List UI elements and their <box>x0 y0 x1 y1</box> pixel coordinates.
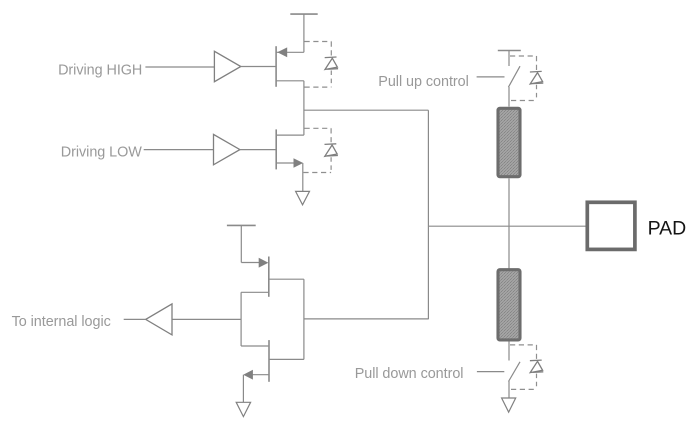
ESD diode D2 dashed anode lead <box>330 157 332 172</box>
transistor Q2 (NMOS, driving LOW) : gate/channel bar <box>275 129 277 169</box>
buffer U1 (Driving HIGH) <box>214 51 240 81</box>
wire: Q2 source down to ground <box>302 163 304 191</box>
switch S2 blade (pull down) <box>509 362 521 382</box>
ESD diode D2 bottom wire <box>303 172 331 174</box>
ESD diode D1 bottom wire <box>305 86 332 88</box>
resistor R1 (pull-up) <box>498 108 520 176</box>
wire: Driving LOW label to buffer U2 input <box>144 149 214 151</box>
wire: buffer U1 output to Q1 gate <box>241 66 276 68</box>
transistor Q4 (NMOS, input buffer) : channel bar <box>268 340 270 382</box>
resistor R2 (pull-down) <box>498 270 520 340</box>
svg-text:To internal logic: To internal logic <box>12 314 111 330</box>
ESD diode D1 glyph (cathode up) <box>325 57 338 70</box>
ESD diode D1 dashed cathode lead <box>330 42 332 58</box>
wire: switch S2 to ground <box>508 381 510 398</box>
dashed diode D4 (across S2) top wire <box>510 344 537 346</box>
transistor Q1 (PMOS, driving HIGH) : gate/channel bar <box>275 46 277 87</box>
wire: pad line <box>428 225 585 227</box>
wire: R1 to pad line <box>508 178 510 226</box>
wire: vertical bus joining driver output, pad line and input buffer <box>427 110 429 319</box>
transistor Q3 drain tap <box>269 278 304 280</box>
transistor Q1 drain tap <box>276 80 304 82</box>
wire: supply down <box>240 225 242 262</box>
supply rail (pull-up VDD) <box>498 50 521 52</box>
transistor Q4 source tap with outward arrow <box>250 374 269 376</box>
supply rail (input buffer VDD) <box>227 224 256 226</box>
wire: buffer U3 output to label <box>124 318 146 320</box>
dashed diode D4 anode lead <box>536 374 538 390</box>
wire: pad line to resistor R2 <box>508 226 510 268</box>
dashed diode D3 glyph <box>530 71 543 84</box>
wire: supply to switch S1 <box>508 51 510 67</box>
dashed diode D3 cathode lead <box>536 56 538 71</box>
transistor Q2 drain tap <box>276 134 304 136</box>
dashed diode D3 bottom wire <box>511 100 537 102</box>
buffer U2 (Driving LOW) <box>214 134 240 164</box>
wire: Driving HIGH label to buffer U1 input <box>145 66 214 68</box>
transistor Q4 drain tap <box>269 358 304 360</box>
svg-text:Pull up control: Pull up control <box>378 74 468 90</box>
ground (driver) <box>296 191 310 204</box>
svg-text:Driving LOW: Driving LOW <box>61 144 142 160</box>
dashed diode D4 cathode lead <box>536 345 538 360</box>
wire: Q4 source down to ground <box>242 375 244 403</box>
dashed diode D3 (across S1) top wire <box>510 55 537 57</box>
wire: Q3 drain to Q4 drain (buffer output node) <box>303 279 305 359</box>
ground (pull-down) <box>502 398 516 412</box>
ESD diode D2 glyph <box>325 144 338 157</box>
dashed diode D4 bottom wire <box>511 388 537 390</box>
wire: switch S1 to resistor R1 <box>508 87 510 107</box>
wire: R2 to switch S2 <box>508 341 510 360</box>
dashed diode D4 glyph <box>530 360 543 373</box>
ESD diode D2 dashed cathode lead <box>330 128 332 143</box>
wire: buffer output node to vertical bus <box>304 318 429 320</box>
transistor Q1 source tap with arrow into bar <box>276 51 304 53</box>
transistor Q3 (PMOS, input buffer) : channel bar <box>268 257 270 297</box>
buffer U3 (to internal logic, points left) <box>146 304 172 335</box>
transistor Q2 source tap with outward arrow <box>276 162 297 164</box>
ESD diode D1 (dashed, across Q1) top wire <box>305 41 332 43</box>
svg-text:Driving HIGH: Driving HIGH <box>58 62 142 78</box>
svg-text:Pull down control: Pull down control <box>355 366 464 382</box>
svg-text:PAD: PAD <box>648 217 687 239</box>
dashed diode D3 anode lead <box>536 85 538 101</box>
wire: Q1 drain down to Q2 drain (output node) <box>303 81 305 135</box>
ground (input buffer) <box>236 402 250 416</box>
ESD diode D1 dashed anode lead <box>330 71 332 88</box>
wire: pull down control lead <box>477 371 504 373</box>
wire: pull up control lead <box>477 76 505 78</box>
supply rail (driver VDD) <box>290 13 317 15</box>
wire: buffer U2 output to Q2 gate <box>240 149 276 151</box>
PAD box <box>587 202 635 249</box>
wire: Q1 source up to supply <box>303 14 305 52</box>
ESD diode D2 (dashed, across Q2) top wire <box>305 127 332 129</box>
gate bracket (shared gate of Q3/Q4) <box>240 292 242 346</box>
wire: driver output node to the right <box>304 109 429 111</box>
wire: pad-side input to gate bracket <box>172 318 241 320</box>
wire: supply to Q3 source with arrow into bar <box>241 262 262 264</box>
switch S1 blade (pull up) <box>508 66 520 87</box>
